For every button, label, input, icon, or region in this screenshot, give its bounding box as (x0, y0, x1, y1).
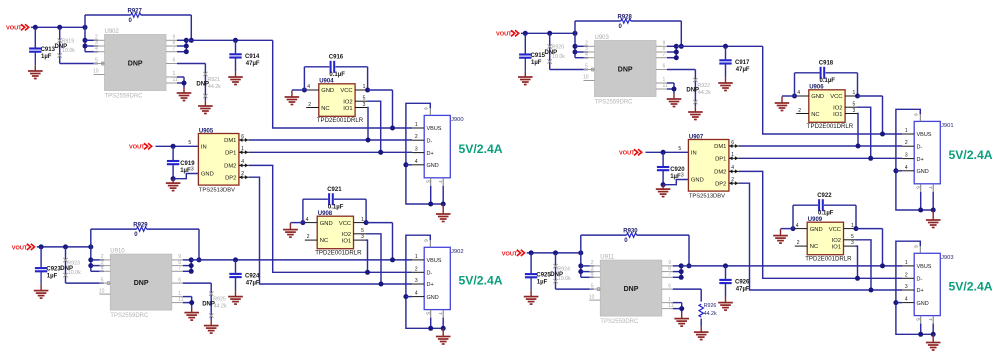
svg-text:TPS2559DRC: TPS2559DRC (595, 100, 634, 106)
wire J903 GND pin (893, 300, 898, 305)
svg-text:3: 3 (415, 147, 418, 153)
IC U904 TPD2E001DRLR (319, 84, 355, 117)
svg-text:DP2: DP2 (225, 175, 236, 181)
ground (J900 shield) (442, 204, 444, 214)
J903 pin 3 D+ stub (902, 289, 914, 291)
svg-text:IO1: IO1 (342, 238, 351, 244)
svg-text:U902: U902 (105, 29, 120, 35)
connector J900 USB receptacle (424, 115, 450, 177)
svg-text:VBUS: VBUS (427, 258, 442, 264)
wire DP1 to J top D+ (739, 157, 902, 159)
svg-text:D-: D- (917, 144, 923, 150)
J900 pin 4 GND stub (412, 164, 424, 166)
wire IO1 to D- (bottom) (856, 246, 858, 278)
svg-text:U909: U909 (808, 217, 823, 223)
svg-text:4: 4 (905, 297, 908, 303)
svg-text:2: 2 (905, 140, 908, 146)
wire DM2 to J bottom D- (739, 171, 902, 278)
capacitor C916 0.1uF (303, 67, 305, 90)
svg-text:GND: GND (427, 295, 439, 301)
svg-text:U907: U907 (689, 135, 704, 141)
svg-text:D-: D- (917, 277, 923, 283)
svg-text:5: 5 (95, 58, 98, 64)
ground (U903 pins 1,11) (667, 82, 674, 84)
svg-text:6: 6 (668, 283, 671, 289)
svg-text:VCC: VCC (830, 94, 842, 100)
svg-text:GND: GND (691, 178, 704, 184)
J900 pin 1 VBUS stub (412, 127, 424, 129)
wire VOUT rail (527, 252, 581, 254)
svg-text:VCC: VCC (339, 221, 351, 227)
svg-text:C925: C925 (536, 273, 551, 279)
svg-text:VOUT: VOUT (12, 245, 28, 251)
svg-text:IO2: IO2 (343, 100, 352, 106)
wire DP1 to J top D+ (249, 151, 412, 153)
svg-text:5: 5 (678, 146, 681, 152)
svg-text:GND: GND (201, 172, 214, 178)
resistor R920 DNP 10.0k (EN divider) (549, 33, 551, 69)
resistor R927 0 ohm bypass (84, 15, 86, 27)
wire EN to pin5 (60, 63, 98, 65)
svg-text:10.0k: 10.0k (68, 270, 81, 276)
capacitor C917 47uF (723, 44, 728, 49)
ground (U909) (780, 229, 782, 236)
svg-text:U903: U903 (595, 35, 610, 41)
svg-text:1: 1 (241, 146, 244, 152)
ground (U907 GND) (662, 185, 664, 189)
J901 shield pins bottom (920, 184, 922, 192)
svg-text:VBUS: VBUS (917, 132, 932, 138)
U906 pin stubs (797, 95, 809, 97)
resistor R926 44.2k (699, 304, 703, 317)
svg-text:1: 1 (363, 84, 366, 90)
wire pin6 FLT (667, 69, 695, 71)
U907 pin 4 DM2 stub (729, 170, 739, 172)
capacitor C921 0.1uF (302, 199, 304, 222)
svg-text:VOUT: VOUT (619, 151, 635, 157)
svg-text:DNP: DNP (618, 67, 633, 74)
U910 right pin stubs 9,8,7,6,1,11 (172, 259, 183, 261)
svg-text:3: 3 (415, 278, 418, 284)
svg-text:3: 3 (905, 153, 908, 159)
svg-text:0.1µF: 0.1µF (328, 205, 344, 211)
svg-text:7: 7 (178, 266, 181, 272)
svg-text:J900: J900 (451, 117, 464, 123)
svg-text:C922: C922 (817, 193, 832, 199)
svg-text:6: 6 (173, 58, 176, 64)
svg-text:U911: U911 (600, 255, 615, 261)
capacitor C925 1uF (530, 253, 532, 273)
ground (U910 pins 1,11) (183, 296, 192, 298)
svg-text:5: 5 (585, 64, 588, 70)
connector J903 USB receptacle (914, 253, 940, 315)
svg-text:47µF: 47µF (246, 61, 260, 67)
J901 pin 3 D+ stub (902, 158, 914, 160)
svg-text:VOUT: VOUT (502, 251, 518, 257)
svg-text:GND: GND (917, 301, 929, 307)
svg-text:6: 6 (731, 140, 734, 146)
wire VCC to VBUS (bottom) (856, 228, 883, 230)
svg-text:D+: D+ (427, 151, 434, 157)
svg-text:D-: D- (427, 138, 433, 144)
svg-text:IO1: IO1 (833, 112, 842, 118)
svg-text:4: 4 (306, 217, 309, 223)
svg-text:47µF: 47µF (246, 281, 260, 287)
svg-text:VBUS: VBUS (427, 126, 442, 132)
wire OUT drop to VBUS rail (763, 46, 903, 134)
svg-text:5: 5 (425, 180, 430, 183)
connector J901 USB receptacle (914, 121, 940, 183)
svg-text:R927: R927 (128, 9, 143, 15)
wire pin6 FLT (673, 288, 701, 290)
svg-text:5V/2.4A: 5V/2.4A (459, 142, 503, 156)
svg-text:5: 5 (425, 312, 430, 315)
IC U908 TPD2E001DRLR (317, 216, 353, 249)
svg-text:C916: C916 (329, 55, 344, 61)
capacitor C915 1uF (524, 33, 526, 53)
wire IO1 to D- (top) (366, 108, 369, 141)
J903 shield pins bottom (920, 316, 922, 324)
U911 left pin stubs 2,3,4,5,10 (589, 265, 600, 267)
J903 pin 2 D- stub (902, 277, 914, 279)
svg-text:2: 2 (308, 102, 311, 108)
svg-text:10: 10 (589, 294, 595, 300)
svg-text:3: 3 (851, 240, 854, 246)
wire IO2 to D+ (top) (857, 107, 871, 158)
svg-text:3: 3 (361, 234, 364, 240)
IC U907 TPS2513DBV (688, 140, 729, 192)
U908 pin stubs (305, 222, 317, 224)
svg-text:3: 3 (853, 108, 856, 114)
wire IO1 to D- (bottom) (366, 240, 368, 272)
wire OUT tie (pins 9,8,7) (667, 45, 676, 47)
svg-text:7: 7 (668, 272, 671, 278)
svg-text:7: 7 (928, 186, 933, 189)
ground (C913) (34, 65, 36, 71)
J900 pin 2 D- stub (412, 139, 424, 141)
wire IN pins branch (84, 27, 86, 51)
svg-text:0.1µF: 0.1µF (818, 211, 834, 217)
svg-text:C915: C915 (531, 53, 546, 59)
svg-text:NC: NC (811, 112, 819, 118)
IC U906 TPD2E001DRLR (809, 90, 845, 123)
wire OUT tie (pins 9,8,7) (673, 265, 681, 267)
U909 pin stubs (795, 228, 807, 230)
svg-text:D+: D+ (917, 288, 924, 294)
svg-text:6: 6 (424, 239, 429, 242)
svg-text:2: 2 (241, 171, 244, 177)
U910 left pin stubs 2,3,4,5,10 (99, 259, 110, 261)
svg-text:TPD2E001DRLR: TPD2E001DRLR (315, 250, 362, 257)
svg-text:6: 6 (914, 245, 919, 248)
ground (C924) (235, 291, 237, 297)
svg-text:DM2: DM2 (714, 170, 726, 176)
svg-text:IO2: IO2 (342, 232, 351, 238)
svg-text:4: 4 (796, 223, 799, 229)
svg-text:10.0k: 10.0k (62, 48, 75, 54)
svg-text:5: 5 (361, 228, 364, 234)
svg-text:2: 2 (905, 272, 908, 278)
ground (R922) (694, 106, 696, 112)
svg-text:5: 5 (188, 140, 191, 146)
J902 pin 1 VBUS stub (412, 259, 424, 261)
U902 left pin stubs 2,3,4,5,10 (94, 39, 105, 41)
ground (C915) (524, 71, 526, 77)
svg-text:4: 4 (585, 52, 588, 58)
svg-text:J902: J902 (451, 249, 464, 255)
svg-text:5: 5 (915, 318, 920, 321)
wire pin6 FLT (183, 282, 211, 284)
wire VOUT rail (31, 26, 85, 28)
U902 right pin stubs 9,8,7,6,1,11 (166, 39, 177, 41)
svg-text:IO1: IO1 (343, 106, 352, 112)
svg-text:R928: R928 (618, 15, 633, 21)
svg-text:VCC: VCC (829, 227, 841, 233)
svg-text:VOUT: VOUT (6, 26, 22, 32)
svg-text:J903: J903 (941, 255, 954, 261)
svg-text:IO1: IO1 (832, 244, 841, 250)
J902 pin 4 GND stub (412, 296, 424, 298)
svg-text:6: 6 (663, 64, 666, 70)
svg-text:44.2k: 44.2k (698, 90, 711, 96)
svg-text:DNP: DNP (134, 280, 149, 287)
J901 pin 2 D- stub (902, 145, 914, 147)
svg-text:0.1µF: 0.1µF (820, 78, 836, 84)
svg-text:U905: U905 (199, 129, 214, 135)
svg-text:TPS2513DBV: TPS2513DBV (199, 188, 235, 194)
IC U903 TPS2559DRC DNP (595, 41, 657, 97)
ground (U904) (291, 91, 293, 98)
IC U905 TPS2513DBV (198, 134, 239, 186)
svg-text:C923: C923 (46, 267, 61, 273)
resistor R925 DNP 44.2k (210, 295, 212, 320)
wire IO2 to D+ (top) (367, 101, 381, 152)
ground (C914) (235, 71, 237, 77)
J901 pin 4 GND stub (902, 170, 914, 172)
svg-text:VOUT: VOUT (496, 32, 512, 38)
J902 shield pin top (429, 240, 431, 247)
wire EN to pin5 (550, 69, 588, 71)
ground (C923) (40, 285, 42, 291)
svg-text:GND: GND (321, 88, 334, 94)
svg-text:0.1µF: 0.1µF (329, 72, 345, 78)
IC U910 TPS2559DRC DNP (110, 254, 172, 310)
capacitor C914 47uF (233, 38, 238, 43)
svg-text:5: 5 (363, 96, 366, 102)
svg-text:TPS2559DRC: TPS2559DRC (600, 319, 639, 325)
svg-text:GND: GND (811, 94, 824, 100)
wire U906 GND (792, 94, 797, 99)
U907 pin 2 DP2 stub (729, 182, 739, 184)
svg-text:1µF: 1µF (41, 54, 52, 60)
svg-text:7: 7 (438, 312, 443, 315)
wire J901 GND pin (893, 168, 898, 173)
resistor R930 0 ohm bypass (580, 235, 582, 253)
svg-text:1: 1 (905, 260, 908, 266)
svg-text:0: 0 (134, 232, 138, 238)
svg-text:DM1: DM1 (224, 138, 236, 144)
U907 pin 6 DM1 stub (729, 145, 739, 147)
svg-text:DM2: DM2 (224, 164, 236, 170)
U907 pin 1 DP1 stub (729, 157, 739, 159)
svg-text:3: 3 (191, 167, 194, 173)
wire DM1 to J top D- (739, 145, 902, 147)
U905 pin 1 DP1 stub (239, 151, 249, 153)
connector J902 USB receptacle (424, 247, 450, 309)
ground (C926) (725, 297, 727, 303)
svg-text:1: 1 (853, 90, 856, 96)
svg-text:4: 4 (307, 84, 310, 90)
U905 pin 6 DM1 stub (239, 139, 249, 141)
svg-text:6: 6 (914, 113, 919, 116)
capacitor C926 47uF (723, 263, 728, 268)
wire J903 shield loop (896, 241, 933, 334)
capacitor C920 1uF (662, 152, 664, 166)
IC U911 TPS2559DRC DNP (600, 260, 662, 316)
U905 pin 4 DM2 stub (239, 164, 249, 166)
svg-text:C913: C913 (41, 47, 56, 53)
svg-text:7: 7 (438, 180, 443, 183)
svg-text:TPD2E001DRLR: TPD2E001DRLR (807, 123, 854, 130)
svg-text:10: 10 (99, 288, 105, 294)
svg-text:TPS2559DRC: TPS2559DRC (110, 313, 149, 319)
ground (C925) (530, 291, 532, 297)
svg-text:IN: IN (201, 145, 207, 151)
wire OUT net (bottom switch to VBUS) (681, 265, 902, 267)
capacitor C919 1uF (172, 146, 174, 160)
svg-text:1µF: 1µF (47, 274, 58, 280)
svg-text:C924: C924 (245, 274, 260, 280)
wire U908 GND (300, 220, 305, 225)
J902 pin 2 D- stub (412, 271, 424, 273)
svg-text:TPD2E001DRLR: TPD2E001DRLR (317, 117, 364, 124)
J902 shield pins bottom (430, 310, 432, 318)
wire IO2 to D+ (bottom) (366, 234, 381, 284)
resistor R919 DNP 10.0k (EN divider) (59, 27, 61, 63)
svg-text:3: 3 (363, 102, 366, 108)
capacitor C922 0.1uF (792, 205, 794, 228)
svg-text:C926: C926 (735, 280, 750, 286)
svg-text:DM1: DM1 (714, 144, 726, 150)
wire VCC to VBUS (bottom) (366, 222, 392, 224)
svg-text:6: 6 (241, 134, 244, 140)
wire DP2 to J bottom D+ (739, 183, 902, 290)
J902 pin 3 D+ stub (412, 283, 424, 285)
wire OUT net (top switch to VBUS) (676, 45, 762, 47)
wire VOUT rail (521, 32, 575, 34)
wire DM1 to J top D- (249, 139, 412, 141)
wire OUT tie (pins 9,8,7) (183, 259, 191, 261)
svg-text:U904: U904 (319, 79, 334, 85)
ground (J902 shield) (442, 328, 444, 336)
svg-text:D-: D- (427, 271, 433, 277)
svg-text:3: 3 (681, 173, 684, 179)
svg-text:1µF: 1µF (537, 280, 548, 286)
J903 shield pin top (919, 246, 921, 253)
wire C920 to GND pin 3 (663, 180, 688, 185)
svg-text:10: 10 (93, 69, 99, 75)
svg-text:1: 1 (415, 254, 418, 260)
J903 pin 4 GND stub (902, 302, 914, 304)
svg-text:2: 2 (415, 266, 418, 272)
svg-text:5: 5 (851, 234, 854, 240)
svg-text:0: 0 (624, 238, 628, 244)
svg-text:1µF: 1µF (531, 60, 542, 66)
svg-text:DP2: DP2 (715, 181, 726, 187)
svg-text:2: 2 (307, 234, 310, 240)
svg-text:DP1: DP1 (225, 151, 236, 157)
svg-text:R921: R921 (207, 77, 220, 83)
svg-text:3: 3 (905, 284, 908, 290)
wire U904 GND (302, 88, 307, 93)
resistor R923 DNP 10.0k (EN divider) (65, 247, 67, 283)
U903 right pin stubs 9,8,7,6,1,11 (656, 45, 667, 47)
resistor R921 DNP 44.2k (204, 75, 206, 100)
wire OUT net (top switch to VBUS) (186, 39, 272, 41)
svg-text:TPD2E001DRLR: TPD2E001DRLR (805, 256, 852, 263)
svg-text:4: 4 (731, 165, 734, 171)
svg-text:2: 2 (798, 108, 801, 114)
wire VCC to VBUS (top) (368, 89, 393, 91)
svg-text:1: 1 (361, 217, 364, 223)
wire EN to pin5 (556, 288, 594, 290)
capacitor C918 0.1uF (794, 73, 796, 96)
svg-text:4: 4 (591, 272, 594, 278)
svg-text:4: 4 (797, 90, 800, 96)
svg-text:5V/2.4A: 5V/2.4A (949, 280, 993, 294)
wire OUT drop to VBUS rail (273, 40, 413, 128)
ground (C917) (725, 77, 727, 83)
wire VCC to VBUS (top) (858, 95, 883, 97)
wire J902 GND pin (403, 294, 408, 299)
wire IN pins branch (90, 247, 92, 271)
capacitor C924 47uF (233, 257, 238, 262)
svg-text:VBUS: VBUS (917, 264, 932, 270)
svg-text:5V/2.4A: 5V/2.4A (459, 274, 503, 288)
svg-text:1: 1 (415, 122, 418, 128)
J901 pin 1 VBUS stub (902, 133, 914, 135)
ground (J901 shield) (932, 210, 934, 220)
wire J900 GND pin (403, 162, 408, 167)
svg-text:5: 5 (101, 277, 104, 283)
J900 shield pin top (429, 108, 431, 115)
svg-text:5: 5 (853, 102, 856, 108)
svg-text:GND: GND (320, 221, 333, 227)
svg-text:5: 5 (591, 283, 594, 289)
svg-text:5: 5 (915, 186, 920, 189)
svg-text:NC: NC (810, 244, 818, 250)
wire J901 shield loop (896, 109, 933, 210)
svg-text:GND: GND (917, 169, 929, 175)
J901 shield pin top (919, 114, 921, 121)
wire J902 shield loop (406, 235, 443, 328)
svg-text:DNP: DNP (128, 61, 143, 68)
J900 shield pins bottom (430, 178, 432, 186)
U903 left pin stubs 2,3,4,5,10 (584, 45, 595, 47)
svg-text:10: 10 (583, 75, 589, 81)
ground (U908) (289, 223, 291, 230)
svg-text:NC: NC (320, 238, 328, 244)
svg-text:IN: IN (691, 151, 697, 157)
U904 pin stubs (307, 89, 319, 91)
svg-text:44.2k: 44.2k (704, 311, 717, 317)
ground (R926) (700, 326, 702, 332)
svg-text:U908: U908 (318, 211, 333, 217)
wire IN pins branch (580, 253, 582, 277)
svg-text:0: 0 (619, 24, 623, 30)
svg-text:C917: C917 (735, 60, 750, 66)
svg-text:4: 4 (415, 291, 418, 297)
